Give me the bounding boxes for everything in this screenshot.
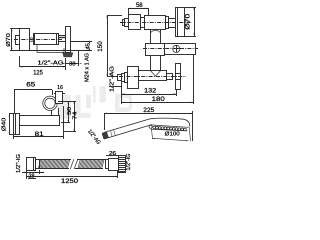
V seam	[150, 70, 161, 76]
connector to handle post	[59, 36, 66, 42]
shower outlet arm	[165, 44, 196, 55]
dim 125	[19, 56, 21, 67]
svg-text:132: 132	[144, 88, 157, 95]
pivot circle	[149, 125, 152, 128]
svg-text:16: 16	[57, 85, 63, 91]
holder slot	[56, 92, 63, 104]
hose nut left	[27, 158, 36, 171]
hose ring right	[109, 159, 119, 171]
bracket wall plate	[14, 114, 20, 135]
neck	[51, 110, 53, 116]
svg-text:125: 125	[33, 69, 43, 76]
C-ring hook	[43, 96, 57, 110]
hose collar right	[106, 160, 109, 169]
escutcheon plate side view	[20, 29, 30, 51]
dim 28	[22, 172, 44, 174]
handle block	[129, 15, 141, 30]
bottom union tip	[118, 75, 122, 81]
mixer body tube	[34, 34, 59, 45]
svg-text:81: 81	[35, 132, 45, 138]
upper escutcheon	[176, 8, 185, 37]
dim 50	[58, 101, 76, 103]
svg-text:1/2"-AG: 1/2"-AG	[110, 65, 116, 92]
bottom union block	[128, 67, 139, 89]
handle post (lever)	[66, 27, 71, 53]
column	[150, 29, 152, 70]
svg-text:1/2"-IG: 1/2"-IG	[16, 154, 22, 173]
svg-text:1250: 1250	[61, 178, 79, 185]
svg-text:1/2"-IG: 1/2"-IG	[126, 154, 132, 171]
flange right	[169, 19, 176, 28]
dim 81	[14, 136, 63, 138]
spout under-cover	[37, 44, 64, 52]
hose collar left	[36, 160, 40, 169]
outlet nut M24	[63, 53, 73, 57]
wall stub 1/2 inch connector	[16, 36, 20, 45]
dim 1250	[117, 171, 119, 178]
bottom arm centerline	[119, 76, 186, 78]
bracket arm	[20, 116, 60, 126]
corrugated hose	[40, 159, 71, 161]
bottom union stub	[122, 74, 125, 82]
handle tip	[123, 20, 125, 26]
middle arm centerline	[143, 48, 198, 50]
leader line	[109, 86, 122, 88]
svg-text:74: 74	[72, 112, 78, 120]
body centerline	[14, 39, 62, 41]
lower escutcheon	[176, 64, 181, 90]
extension line bottom / 45 dim	[10, 50, 92, 52]
svg-text:45: 45	[86, 43, 92, 50]
middle collar	[146, 44, 165, 56]
handle stub	[125, 19, 129, 27]
dome seam below top bar	[150, 30, 161, 33]
svg-text:M24 x 1 AG: M24 x 1 AG	[84, 53, 90, 82]
union screw circle	[30, 38, 34, 42]
neck	[141, 18, 145, 28]
outlet circle	[173, 45, 180, 52]
dim 74	[64, 131, 76, 133]
svg-text:180: 180	[152, 96, 166, 103]
hose break	[70, 159, 74, 169]
head face plate	[150, 125, 189, 127]
watermark logo	[58, 95, 71, 119]
bottom bar	[139, 71, 167, 81]
svg-text:38: 38	[69, 61, 76, 67]
dim 38	[65, 58, 67, 70]
shower handle	[105, 119, 151, 133]
dim 132	[121, 82, 123, 104]
svg-text:Ø70: Ø70	[6, 33, 12, 47]
svg-text:58: 58	[136, 2, 143, 9]
nozzle bumps	[153, 126, 186, 131]
shower head top	[150, 118, 189, 126]
dim 45	[70, 41, 92, 43]
knurled nut right	[119, 156, 126, 173]
svg-text:Ø100: Ø100	[165, 131, 180, 137]
top arm centerline	[120, 22, 192, 24]
valve body bar top	[145, 16, 166, 30]
svg-text:1/2"-AG: 1/2"-AG	[38, 60, 65, 66]
handle grip tip	[102, 132, 109, 140]
svg-text:Ø40: Ø40	[2, 118, 8, 132]
svg-text:65: 65	[26, 83, 36, 89]
bar stub right	[167, 74, 173, 80]
svg-text:150: 150	[98, 41, 104, 52]
dim 180	[193, 55, 195, 104]
svg-text:Ø70: Ø70	[186, 13, 192, 30]
